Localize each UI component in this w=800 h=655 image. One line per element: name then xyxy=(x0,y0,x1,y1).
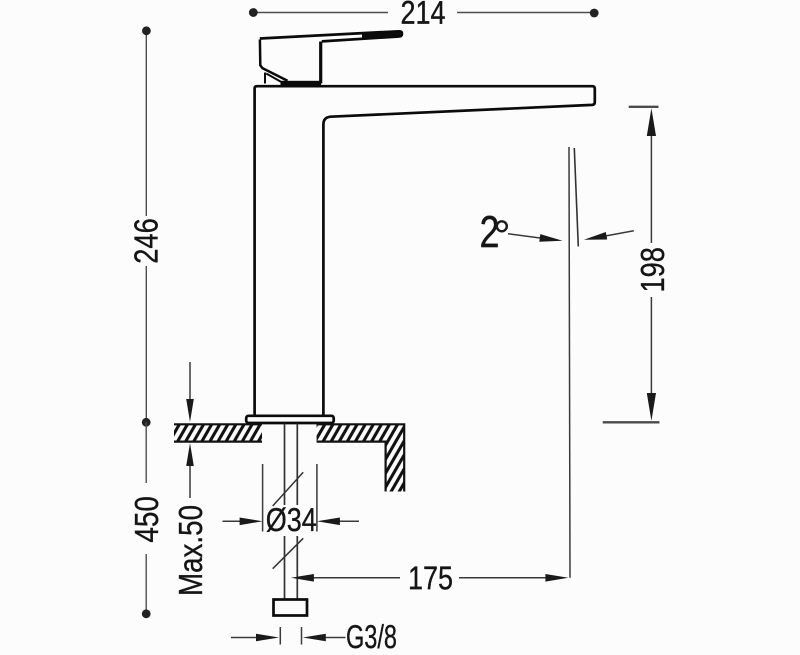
Max.50 lower arrowhead (up) xyxy=(186,443,194,466)
shank break mark lower xyxy=(273,538,304,568)
lever handle blade xyxy=(260,31,402,41)
countertop left section hatch xyxy=(174,424,262,441)
faucet body and spout outline xyxy=(255,86,595,415)
G3/8 left arrowhead (right) xyxy=(256,634,279,642)
angle left arrowhead (right) xyxy=(539,234,562,242)
G3/8 left arrow line xyxy=(231,637,258,639)
svg-text:175: 175 xyxy=(408,559,453,596)
diameter 34 left arrowhead (right) xyxy=(240,518,263,526)
diameter 34 left arrow line xyxy=(223,520,242,522)
G3/8 right arrow line xyxy=(324,637,346,639)
dimension 175 right arrowhead (right) xyxy=(545,574,568,582)
handle base thick bar xyxy=(281,81,322,86)
water stream right line xyxy=(574,148,578,247)
G3/8 right extension line xyxy=(301,627,303,645)
angle left leader line xyxy=(508,234,542,238)
supply shank left line xyxy=(284,424,286,600)
svg-text:246: 246 xyxy=(128,218,165,264)
svg-text:Max.50: Max.50 xyxy=(172,505,209,596)
lever handle back edge xyxy=(319,42,322,84)
dimension 198 bottom tick xyxy=(603,421,660,423)
dimension 198 top arrowhead (up) xyxy=(647,108,656,136)
countertop right section hatch xyxy=(317,424,405,491)
svg-text:2: 2 xyxy=(479,206,499,257)
water stream left line xyxy=(569,147,570,578)
dimension 214 left dot xyxy=(249,8,258,17)
svg-text:Ø34: Ø34 xyxy=(266,501,317,538)
dimension 246 line xyxy=(145,31,147,423)
svg-text:G3/8: G3/8 xyxy=(346,618,397,650)
svg-text:450: 450 xyxy=(128,496,165,543)
supply shank right line xyxy=(296,424,298,600)
diameter 34 right arrowhead (left) xyxy=(317,518,340,526)
lever handle blade tip solid fill xyxy=(362,31,401,39)
shank break mark upper xyxy=(273,472,304,506)
dimension 450 line xyxy=(145,422,147,614)
dimension 175 left arrowhead (left) xyxy=(291,574,314,582)
dimension 450 bottom dot xyxy=(142,609,151,618)
dimension 175 line xyxy=(312,577,547,579)
countertop left section borders xyxy=(174,424,262,441)
dimension 246 top dot xyxy=(142,26,151,35)
dimension 198 bottom arrowhead (down) xyxy=(647,393,656,421)
diameter 34 right arrow line xyxy=(338,520,359,522)
svg-text:214: 214 xyxy=(400,0,445,31)
base plate xyxy=(246,416,334,423)
G3/8 connector block xyxy=(274,600,308,616)
countertop right section borders xyxy=(317,424,405,491)
Max.50 lower arrow line xyxy=(189,464,191,498)
diameter 34 left extension line xyxy=(262,464,264,532)
angle 2 deg ordinal circle xyxy=(497,221,507,231)
angle right arrowhead (left) xyxy=(584,232,607,240)
Max.50 upper arrowhead (down) xyxy=(186,399,194,422)
dimension 246 bottom dot xyxy=(142,418,151,427)
svg-text:198: 198 xyxy=(634,247,671,293)
diameter 34 right extension line xyxy=(316,464,318,532)
handle wedge slant xyxy=(266,74,284,84)
dimension 198 top tick xyxy=(629,106,659,108)
dimension 214 right dot xyxy=(590,9,599,18)
handle wedge vertical xyxy=(264,73,266,84)
G3/8 right arrowhead (left) xyxy=(303,634,326,642)
angle right leader line xyxy=(604,231,634,236)
G3/8 left extension line xyxy=(279,627,281,645)
Max.50 upper arrow line xyxy=(189,362,191,401)
dimension 198 line xyxy=(650,134,652,395)
lever handle left edge and bottom slant xyxy=(260,40,288,81)
dimension 214 top line xyxy=(253,12,594,14)
